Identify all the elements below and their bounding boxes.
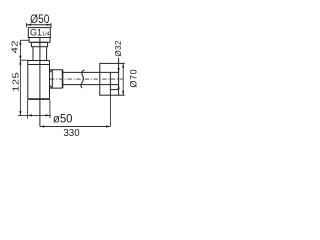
- arrow 330 right: [106, 125, 110, 127]
- O32 leader stub: [118, 58, 120, 64]
- outlet nut chamfer bottom: [50, 85, 53, 88]
- bottle collar top: [28, 60, 50, 62]
- svg-text:Ø70: Ø70: [128, 69, 138, 88]
- outlet nut chamfer top: [50, 70, 53, 73]
- outlet pipe bottom: [62, 84, 118, 86]
- arrow top dim right: [47, 24, 51, 26]
- lower nut rect: [31, 42, 47, 46]
- top dim left extension: [26, 23, 28, 27]
- bottle wall right extension: [49, 100, 51, 119]
- outlet nut body: [50, 70, 63, 88]
- O70 ext bottom: [119, 94, 125, 96]
- inlet pipe right wall: [46, 47, 48, 61]
- arrow 330 left: [40, 125, 44, 127]
- svg-text:Ø32: Ø32: [114, 40, 123, 56]
- O70 dim vertical: [122, 63, 124, 95]
- arrow O32 lower: [118, 85, 120, 89]
- washer rect: [29, 38, 50, 43]
- pipe centerline: [50, 78, 124, 80]
- svg-text:Ø50: Ø50: [30, 14, 49, 27]
- svg-text:330: 330: [63, 128, 80, 139]
- svg-text:ø50: ø50: [53, 112, 73, 125]
- wall flange rect: [100, 63, 119, 95]
- arrow O32 upper: [118, 68, 120, 72]
- top dim line O50: [27, 24, 51, 26]
- arrow 42 top: [19, 40, 21, 44]
- arrow o50 right: [46, 114, 50, 116]
- ext line at y60.2: [20, 59, 28, 61]
- bottle collar bottom: [28, 64, 50, 66]
- svg-text:42: 42: [10, 40, 19, 53]
- O70 ext top: [119, 62, 125, 64]
- svg-text:125: 125: [11, 72, 20, 92]
- arrow 42 bottom / 125 top: [19, 56, 21, 60]
- outlet pipe top: [62, 71, 118, 73]
- arrow O70 top: [122, 63, 124, 67]
- bottom dim line o50: [18, 114, 51, 116]
- outlet nut face line: [51, 70, 53, 88]
- pipe break squiggle: [81, 70, 85, 88]
- flange inner vertical: [109, 72, 111, 95]
- flange extension down: [109, 95, 111, 126]
- bottle wall left extension: [27, 100, 29, 119]
- bottle left wall: [27, 61, 29, 100]
- G-box nut G1 1/4: [28, 28, 50, 38]
- bottle right wall: [49, 61, 51, 100]
- arrow O70 bottom: [122, 91, 124, 95]
- arrow top dim left: [27, 24, 31, 26]
- top dim right extension: [50, 23, 52, 28]
- outlet nut right face thick: [62, 70, 64, 88]
- center axis vertical: [39, 38, 41, 127]
- flange step line: [110, 89, 118, 91]
- arrow 125 bottom: [19, 111, 21, 115]
- 330 dim line: [40, 126, 111, 128]
- ext line at y40.3: [20, 39, 29, 41]
- arrow o50 left: [28, 114, 32, 116]
- inlet pipe left wall: [32, 47, 34, 61]
- bottle bottom: [28, 98, 50, 100]
- left dim vertical line 42/125: [19, 40, 21, 115]
